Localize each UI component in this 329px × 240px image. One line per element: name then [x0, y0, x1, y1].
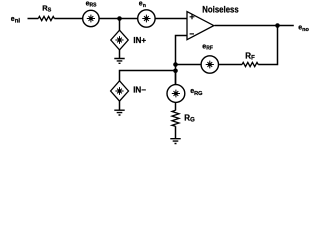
noise source e_n [138, 10, 155, 27]
ground under R_G [170, 139, 180, 144]
wire op-amp output [215, 25, 294, 27]
resistor R3 R_G [172, 110, 179, 126]
wire e_ni to R_S [28, 18, 39, 20]
wire e_RS to node A [99, 18, 137, 20]
svg-text:IN+: IN+ [133, 36, 146, 45]
wire bus to IN- [120, 71, 176, 82]
wire e_n to op-amp + input [155, 18, 187, 20]
wire R_G to ground [175, 126, 177, 138]
ground under IN- [114, 110, 124, 115]
node C junction (bus tap) [173, 69, 178, 74]
wire node C to e_RG [175, 71, 177, 85]
resistor R2 R_F [242, 62, 258, 66]
node A junction [117, 16, 122, 21]
current noise source IN+ [111, 30, 128, 50]
wire R_S to e_RS [54, 18, 82, 20]
svg-text:Noiseless: Noiseless [202, 5, 238, 15]
node B junction (feedback tap) [173, 62, 178, 67]
noise source e_RS [83, 10, 99, 26]
wire e_RF to R_F [219, 64, 243, 66]
svg-text:IN−: IN− [133, 86, 146, 95]
wire op-amp - input [176, 36, 188, 85]
current noise source IN- [111, 81, 129, 101]
svg-text:eRS: eRS [86, 1, 98, 9]
wire e_RG to R_G [175, 102, 177, 110]
wire IN+ to ground [119, 50, 121, 58]
noise source e_RF [201, 56, 218, 73]
wire IN- to ground [119, 101, 121, 110]
ground under IN+ [114, 59, 124, 64]
wire node A to IN+ [119, 19, 121, 31]
output node junction [275, 23, 280, 28]
svg-text:eRF: eRF [202, 43, 213, 51]
wire node B to e_RF [176, 64, 202, 66]
wire R_F to output node [258, 26, 277, 65]
resistor R1 R_S [38, 16, 54, 20]
op-amp U1 [187, 12, 214, 40]
noise source e_RG [167, 85, 185, 103]
